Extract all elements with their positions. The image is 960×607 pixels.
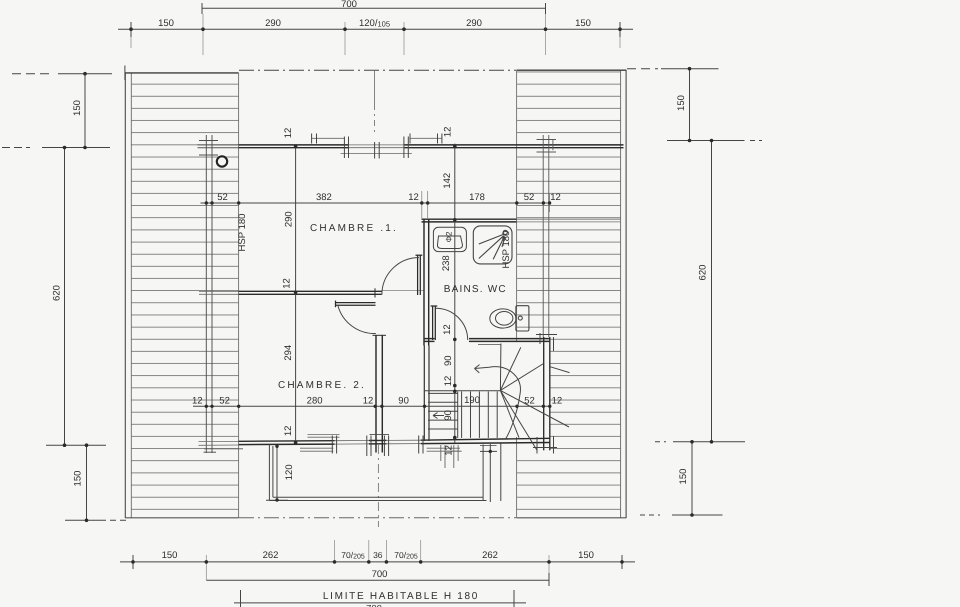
right 620 dim line (711, 141, 713, 442)
svg-text:290: 290 (284, 211, 295, 227)
svg-text:262: 262 (263, 550, 279, 561)
right dim dots (688, 67, 714, 517)
svg-text:178: 178 (469, 192, 485, 203)
balcony right dim dot (489, 450, 492, 453)
svg-text:620: 620 (52, 285, 63, 301)
svg-text:382: 382 (316, 192, 332, 203)
svg-text:238: 238 (441, 255, 452, 271)
svg-text:150: 150 (158, 18, 174, 29)
toilet bowl (490, 309, 516, 328)
dimension row y203 dots (205, 201, 552, 204)
left bottom ticks (46, 445, 128, 520)
svg-text:290: 290 (265, 18, 281, 29)
stair corner steps (428, 393, 458, 429)
x455 chain dots (453, 145, 457, 440)
right 150 dim line bottom (691, 442, 693, 515)
svg-text:HSP 180: HSP 180 (501, 231, 512, 269)
chambre2 door leaf (336, 301, 376, 308)
svg-text:700: 700 (366, 604, 382, 607)
stairwell right wall (544, 337, 550, 450)
centre axis dash-dot top (374, 71, 376, 104)
chambre2/hall wall (370, 335, 390, 453)
dormer edge line pair in left band (199, 135, 218, 453)
top 700 dimension line (202, 3, 546, 14)
bathroom left wall (424, 219, 429, 346)
stairwell wall upper extension pair in right band (537, 135, 557, 337)
dormer bottom bars (204, 449, 244, 452)
right 150 dim line top (627, 69, 762, 141)
svg-text:150: 150 (578, 550, 594, 561)
svg-text:52: 52 (524, 396, 535, 407)
chambre1 door opening sill (382, 289, 425, 291)
bottom wall windows 70/205 (300, 435, 460, 452)
bottom dimension row A (120, 540, 635, 580)
bains door swing arc (436, 308, 468, 340)
svg-text:12: 12 (444, 445, 455, 456)
left 620 dim line (64, 148, 66, 446)
svg-text:12: 12 (442, 127, 453, 138)
svg-text:90: 90 (443, 355, 454, 366)
svg-text:12: 12 (550, 192, 561, 203)
svg-text:12: 12 (192, 396, 203, 407)
svg-text:150: 150 (678, 469, 689, 485)
limite habitable dash-dot bottom (239, 517, 516, 519)
balcony outline (269, 445, 486, 501)
vertical dim line x455 (142/238 chain) (454, 144, 456, 443)
left 150 dim line bottom (86, 445, 88, 520)
svg-text:12: 12 (363, 396, 374, 407)
top wall window 120/105 (312, 138, 442, 153)
column circle (217, 156, 227, 166)
svg-text:LIMITE HABITABLE H 180: LIMITE HABITABLE H 180 (323, 591, 479, 602)
left 150 dim line top (2, 74, 112, 148)
bains door leaf (431, 306, 438, 340)
svg-text:150: 150 (162, 550, 178, 561)
svg-text:190: 190 (464, 395, 480, 406)
vertical dim line x295 (290/294 chain) (295, 147, 297, 444)
balcony right dim extension (480, 444, 497, 502)
bottom row A dots (131, 560, 624, 564)
svg-text:12: 12 (408, 192, 419, 203)
svg-text:700: 700 (372, 569, 388, 580)
bathroom bottom wall / stairwell top wall (424, 339, 550, 342)
limite habitable line (234, 590, 526, 607)
svg-text:120/105: 120/105 (359, 18, 390, 29)
left dim dots (63, 72, 89, 522)
svg-text:620: 620 (698, 265, 709, 281)
toilet tank (516, 306, 529, 331)
svg-text:150: 150 (676, 95, 687, 111)
shower tray (473, 226, 512, 264)
right bottom ticks (640, 442, 745, 515)
ridge dash-dot line top (239, 69, 516, 71)
svg-text:12: 12 (442, 324, 453, 335)
band corner tick top-left (124, 66, 126, 81)
svg-text:CHAMBRE. 2.: CHAMBRE. 2. (278, 380, 366, 391)
svg-text:70/205: 70/205 (341, 550, 365, 561)
right roof hatch band (517, 70, 627, 518)
bathroom top wall extension through band (517, 219, 621, 222)
svg-text:90: 90 (398, 396, 409, 407)
balcony dim dots (275, 445, 278, 502)
svg-text:12: 12 (283, 426, 294, 437)
svg-text:90: 90 (443, 410, 454, 421)
sink (433, 227, 466, 251)
svg-text:12: 12 (443, 376, 454, 387)
svg-text:150: 150 (72, 100, 83, 116)
svg-text:52: 52 (219, 396, 230, 407)
balcony 120 dim (266, 446, 288, 501)
svg-text:120: 120 (284, 464, 295, 480)
svg-text:150: 150 (73, 471, 84, 487)
stair flight top edge (425, 390, 501, 392)
svg-text:36: 36 (373, 550, 383, 560)
chambre2 door swing arc (338, 306, 376, 334)
dimension row y406 dots (205, 405, 552, 408)
first winder step edge (478, 344, 501, 346)
hall/stair wall (424, 346, 429, 442)
bottom wall thin extension into band (199, 441, 239, 445)
centre axis dash-dot bottom (377, 445, 379, 527)
walking-line arrow barbs (475, 365, 480, 373)
chambre1 door swing arc (382, 258, 419, 295)
chambre1 door leaf (416, 255, 423, 295)
svg-text:142: 142 (442, 173, 453, 189)
svg-text:150: 150 (575, 18, 591, 29)
svg-text:BAINS. WC: BAINS. WC (444, 284, 507, 295)
top wall extension into band (198, 145, 239, 148)
svg-text:12: 12 (283, 128, 294, 139)
lower flight side wall below stairwell (500, 444, 502, 502)
top exterior wall (239, 145, 624, 148)
top dimension row line (118, 14, 633, 55)
svg-text:12: 12 (552, 396, 563, 407)
svg-text:70/205: 70/205 (394, 550, 418, 561)
bathroom top wall (422, 219, 517, 222)
chimney below hall wall (441, 445, 462, 468)
svg-text:HSP 180: HSP 180 (237, 214, 248, 252)
svg-text:52: 52 (524, 192, 535, 203)
top wall window jamb ticks (312, 134, 442, 159)
svg-text:262: 262 (482, 550, 498, 561)
svg-text:294: 294 (283, 345, 294, 361)
svg-text:Φ2: Φ2 (445, 231, 454, 242)
mid wall chambre1/chambre2 (199, 291, 239, 294)
interior dimension row y203 (201, 191, 551, 219)
stair straight steps (458, 392, 498, 438)
stairwell corner ticks (533, 333, 557, 454)
winder fan lines (500, 344, 569, 451)
svg-text:280: 280 (307, 396, 323, 407)
bottom exterior wall left part (239, 438, 550, 444)
svg-text:CHAMBRE .1.: CHAMBRE .1. (310, 223, 398, 234)
svg-text:52: 52 (217, 192, 228, 203)
svg-text:12: 12 (281, 278, 292, 289)
winder walking-line arc (475, 367, 521, 440)
svg-text:700: 700 (341, 0, 357, 10)
stair descent arrow (433, 413, 444, 419)
svg-text:290: 290 (466, 18, 482, 29)
x295 chain dots (294, 145, 298, 445)
left roof hatch band (125, 73, 239, 518)
interior dimension row y406 (193, 405, 550, 407)
bottom 700 dimension line (206, 573, 549, 586)
top dimension dots (129, 27, 622, 31)
bottom wall window jamb ticks (332, 436, 423, 457)
